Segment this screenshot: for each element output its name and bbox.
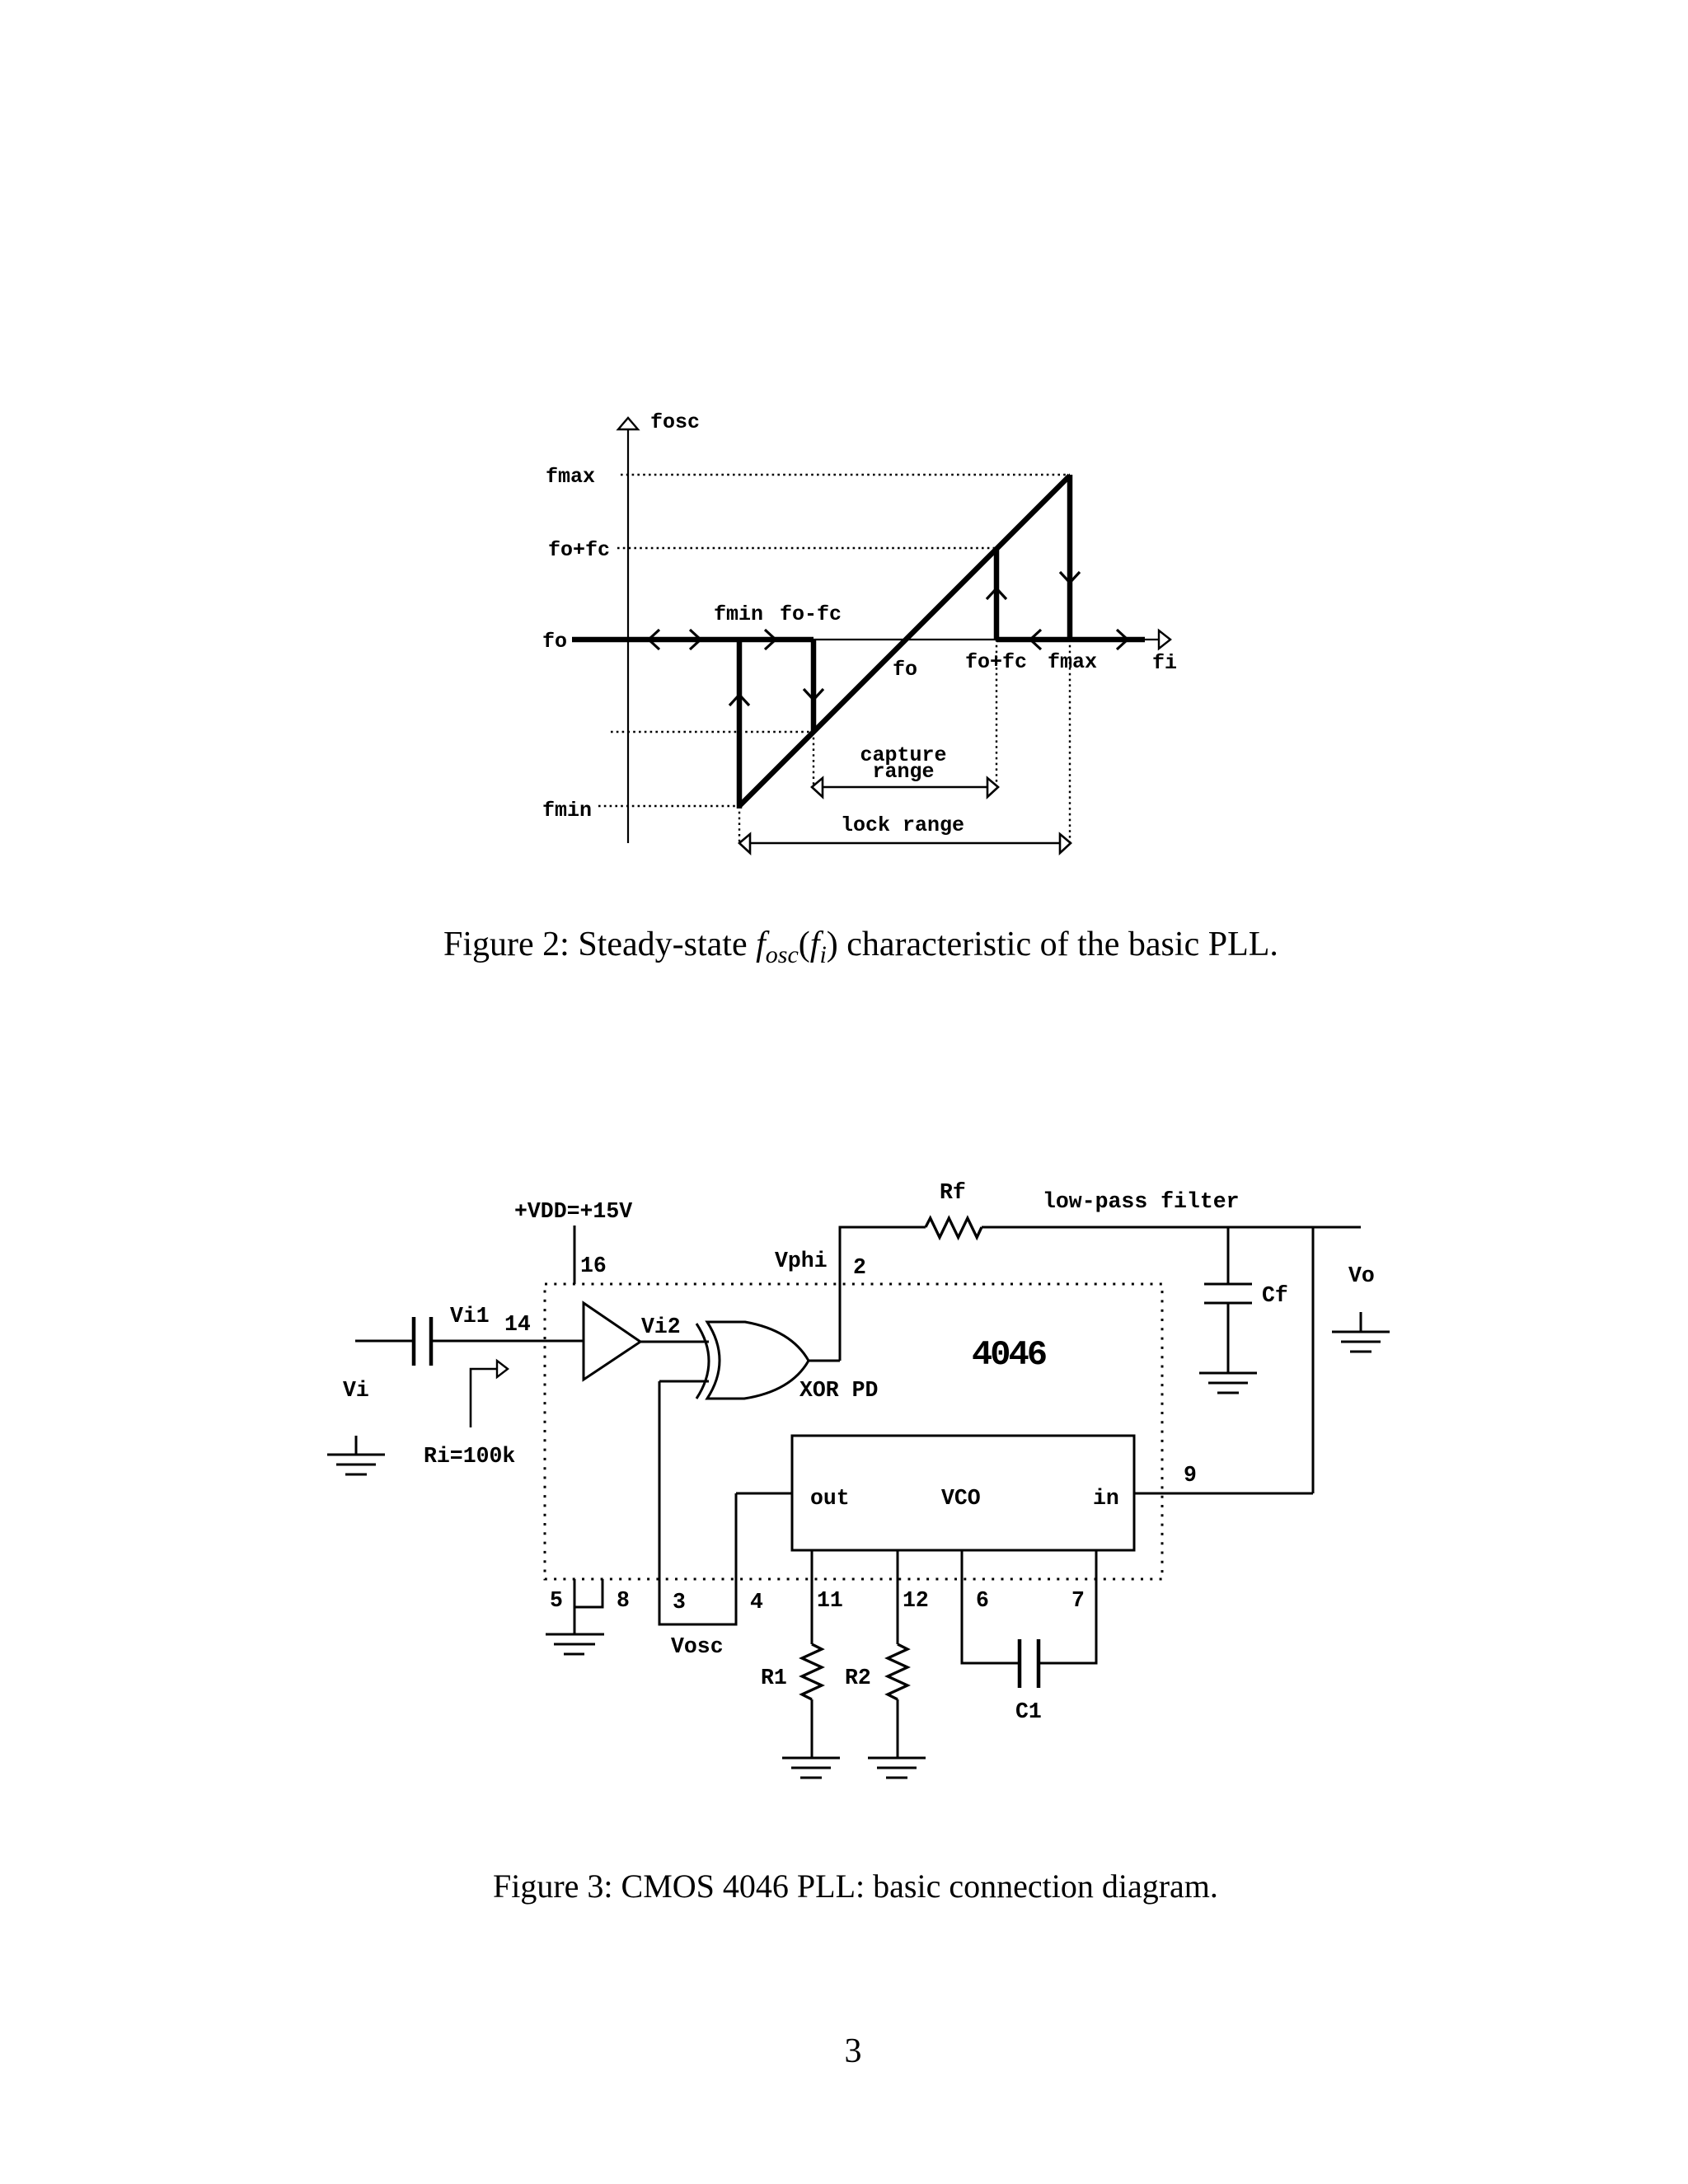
svg-text:Vi: Vi — [343, 1378, 369, 1403]
thick vertical at fmax — [1067, 475, 1073, 640]
svg-text:+VDD=+15V: +VDD=+15V — [514, 1199, 632, 1224]
wire R2 to ground — [897, 1699, 899, 1758]
wire pin3-pin4 bottom link — [659, 1624, 738, 1626]
wire Cf to ground — [1227, 1303, 1230, 1373]
svg-text:5: 5 — [550, 1588, 563, 1613]
svg-text:XOR PD: XOR PD — [799, 1378, 878, 1403]
XOR gate U1 body — [707, 1322, 809, 1399]
dotted level fmin — [598, 805, 739, 807]
chevron down on fmax vertical — [1060, 572, 1080, 583]
capacitor C1 — [1018, 1639, 1022, 1688]
lock range arrow — [750, 842, 1060, 844]
dotted level fo-fc — [611, 731, 814, 733]
svg-text:Vphi: Vphi — [775, 1249, 828, 1273]
thick vertical at fo-fc — [811, 640, 817, 732]
wire pin 5 — [574, 1579, 576, 1634]
wire pin 2 vertical Vphi — [839, 1226, 842, 1361]
thick fo line left segment — [572, 637, 814, 643]
svg-text:fo+fc: fo+fc — [548, 538, 610, 562]
x axis fi — [628, 639, 1158, 640]
svg-text:R1: R1 — [761, 1666, 787, 1690]
svg-text:4: 4 — [750, 1590, 763, 1615]
chevron up on fmin vertical — [729, 695, 749, 705]
x axis arrowhead — [1159, 630, 1170, 649]
capacitor Ci input coupling — [412, 1317, 416, 1366]
VCO box — [792, 1436, 1134, 1550]
ground for R1 — [782, 1757, 840, 1760]
svg-text:14: 14 — [504, 1312, 531, 1337]
wire pin 12 upper — [897, 1550, 899, 1644]
wire XOR output — [809, 1360, 840, 1362]
IC 4046 dotted boundary box — [545, 1284, 1162, 1579]
input signal arrow symbol — [471, 1369, 497, 1427]
dotted vertical at fo+fc — [996, 640, 997, 787]
svg-text:R2: R2 — [845, 1666, 871, 1690]
ground for R2 — [868, 1757, 926, 1760]
wire Rf to output node — [982, 1226, 1361, 1229]
svg-text:range: range — [872, 760, 934, 784]
svg-text:fo: fo — [542, 630, 567, 654]
wire R1 to ground — [811, 1699, 814, 1758]
capture range arrow — [823, 786, 987, 788]
svg-text:Vo: Vo — [1348, 1263, 1375, 1288]
wire VCO in pin 9 — [1134, 1493, 1313, 1495]
svg-text:Vosc: Vosc — [671, 1634, 724, 1659]
svg-text:Vi1: Vi1 — [450, 1304, 490, 1329]
svg-text:Rf: Rf — [940, 1180, 966, 1205]
wire Vi input — [355, 1340, 412, 1343]
wire pin4 to VCO out — [736, 1493, 792, 1495]
svg-text:fo+fc: fo+fc — [965, 650, 1027, 674]
svg-text:4046: 4046 — [972, 1335, 1046, 1375]
wire output node down to VCO in — [1312, 1227, 1315, 1493]
dotted vertical at fo-fc — [813, 732, 814, 787]
thick vertical at fo+fc — [994, 549, 1000, 640]
wire pin 7 — [1039, 1550, 1096, 1663]
ground for pins 5 and 8 — [546, 1633, 604, 1636]
chevron right between fmin fo-fc — [765, 630, 776, 649]
resistor Rf — [926, 1218, 982, 1238]
XOR gate U1 input arc — [696, 1324, 709, 1399]
ground for Vi — [355, 1436, 358, 1455]
amplifier buffer triangle — [584, 1303, 640, 1380]
svg-text:low-pass filter: low-pass filter — [1043, 1189, 1240, 1214]
y axis fosc — [627, 429, 629, 843]
svg-text:11: 11 — [817, 1588, 843, 1613]
svg-text:Ri=100k: Ri=100k — [424, 1444, 515, 1469]
wire pin 16 VDD — [574, 1226, 576, 1284]
svg-text:Figure 3: CMOS 4046 PLL: basic: Figure 3: CMOS 4046 PLL: basic connectio… — [493, 1868, 1218, 1905]
wire cap to amplifier pin 14 — [433, 1340, 584, 1343]
svg-text:3: 3 — [673, 1590, 686, 1615]
svg-text:2: 2 — [853, 1255, 866, 1280]
wire pin 6 — [962, 1550, 1020, 1663]
svg-text:out: out — [810, 1486, 850, 1511]
wire pin 8 — [574, 1579, 603, 1607]
ground reference for Vo — [1360, 1312, 1362, 1332]
svg-text:6: 6 — [976, 1588, 989, 1613]
dotted level fmax — [621, 474, 1070, 476]
dotted vertical at fmin point — [738, 806, 740, 843]
wire pin 11 upper — [811, 1550, 814, 1644]
svg-text:in: in — [1093, 1486, 1119, 1511]
svg-text:fmin: fmin — [714, 602, 763, 626]
chevron down on fo-fc vertical — [804, 689, 823, 700]
wire node to Cf — [1227, 1227, 1230, 1284]
svg-text:lock range: lock range — [841, 813, 964, 837]
capacitor Cf — [1204, 1283, 1252, 1286]
svg-text:VCO: VCO — [941, 1486, 981, 1511]
svg-text:fo-fc: fo-fc — [780, 602, 842, 626]
resistor R1 — [802, 1644, 822, 1699]
wire pin 3 vertical — [659, 1381, 661, 1624]
svg-text:Vi2: Vi2 — [641, 1315, 681, 1339]
wire XOR lower input — [659, 1380, 709, 1383]
svg-text:fmin: fmin — [542, 799, 592, 823]
dotted level fo+fc — [617, 547, 996, 549]
svg-text:Figure 2: Steady-state fosc(fi: Figure 2: Steady-state fosc(fi) characte… — [443, 926, 1278, 968]
chevron right on fo line — [690, 630, 701, 649]
svg-text:fmax: fmax — [1048, 650, 1097, 674]
svg-text:C1: C1 — [1015, 1699, 1042, 1724]
resistor R2 — [888, 1644, 907, 1699]
ground for Cf — [1199, 1372, 1257, 1375]
svg-text:Cf: Cf — [1262, 1283, 1288, 1308]
svg-text:3: 3 — [845, 2032, 862, 2070]
svg-text:fmax: fmax — [546, 465, 595, 489]
wire pin 4 vertical — [735, 1493, 738, 1624]
svg-text:7: 7 — [1071, 1588, 1085, 1613]
y axis arrowhead — [618, 418, 638, 429]
thick diagonal vco characteristic — [739, 476, 1070, 806]
thick fo line right segment — [996, 637, 1145, 643]
svg-text:fosc: fosc — [650, 410, 700, 434]
svg-text:fo: fo — [893, 658, 917, 682]
chevron up on fo+fc vertical — [987, 588, 1006, 599]
svg-text:9: 9 — [1184, 1463, 1197, 1488]
wire amp output to XOR — [640, 1341, 709, 1343]
chevron left on right fo segment — [1030, 630, 1041, 649]
svg-text:fi: fi — [1152, 651, 1177, 675]
chevron right after fmax — [1117, 630, 1128, 649]
svg-text:16: 16 — [580, 1254, 607, 1278]
thick vertical at fmin — [737, 640, 743, 808]
chevron left on fo line — [649, 630, 659, 649]
svg-text:12: 12 — [903, 1588, 929, 1613]
wire to Rf — [840, 1226, 926, 1229]
dotted vertical at fmax — [1069, 640, 1071, 843]
svg-text:8: 8 — [617, 1588, 630, 1613]
